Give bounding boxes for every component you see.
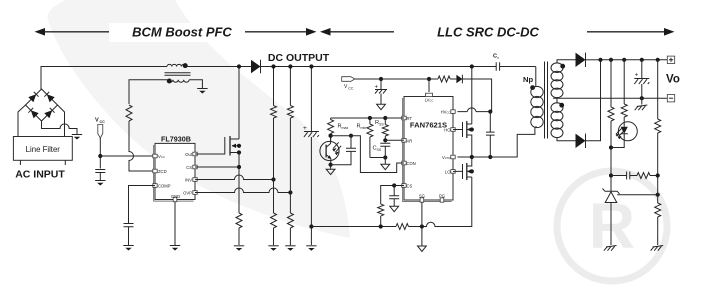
wire VCC node to FL7930B VCC pin: [100, 155, 155, 157]
wire Q1 source / CS sense line: [237, 153, 241, 214]
resistor OVP divider upper: [287, 64, 293, 213]
wire half-bridge bus: [470, 64, 474, 124]
wire bridge AC right: [58, 105, 65, 137]
node Vo label: [666, 74, 680, 86]
wire CS pin to sense line: [195, 166, 239, 168]
capacitor bootstrap: [486, 112, 495, 157]
wire COMP pin to compensation cap: [129, 186, 156, 224]
svg-text:AR: AR: [407, 138, 413, 143]
resistor OVP divider lower: [287, 213, 293, 245]
resistor INV divider upper: [271, 64, 277, 213]
wire lower diode to output rail: [586, 60, 601, 141]
wire ZCD winding to ground: [189, 80, 202, 88]
resistor Rmax: [328, 118, 349, 141]
transistor Q3 low-side MOSFET: [453, 157, 474, 180]
wire upper diode to output rail: [586, 59, 601, 61]
capacitor VCC bypass (LLC) electrolytic: [375, 79, 388, 104]
wire GND pin down: [174, 202, 176, 245]
wire primary ground return rail: [311, 177, 471, 229]
svg-text:HO: HO: [444, 128, 451, 133]
capacitor VCC bypass (left): [95, 170, 105, 181]
line filter block: [13, 137, 72, 161]
wire main DC rail: [41, 67, 536, 90]
diode secondary rectifier lower: [576, 134, 586, 148]
op-amp U2 FAN7621S LLC controller: [402, 93, 455, 202]
svg-text:PG: PG: [439, 194, 445, 199]
capacitor Cr resonant: [493, 54, 500, 71]
svg-text:LLC SRC DC-DC: LLC SRC DC-DC: [437, 25, 539, 40]
ground ZCD winding: [197, 89, 207, 94]
svg-text:DC OUTPUT: DC OUTPUT: [268, 52, 330, 64]
wire output positive rail: [598, 58, 667, 62]
inductor secondary upper winding: [551, 63, 565, 98]
svg-text:min: min: [361, 126, 367, 130]
wire ZCD resistor to ZCD pin (hops VCC wire): [129, 121, 155, 171]
ground output negative reference: [635, 98, 648, 110]
node AC INPUT label: [15, 169, 65, 181]
ground VCC bypass cap: [95, 181, 105, 186]
capacitor COMP compensation: [124, 224, 134, 246]
resistor feedback divider upper: [655, 60, 661, 203]
ground FL7930B GND: [170, 246, 180, 251]
wire VCC flag to VCC node: [98, 138, 102, 169]
svg-text:GND: GND: [171, 194, 180, 199]
wire Out pin to gate: [195, 153, 225, 155]
ground OVP divider: [285, 246, 295, 251]
ground bridge negative: [72, 135, 82, 140]
transformer core LLC: [545, 62, 548, 139]
resistor CS sense divider lower: [396, 224, 409, 230]
inductor ZCD auxiliary winding: [167, 79, 189, 84]
bridge rectifier BD1: [26, 89, 58, 121]
svg-text:LO: LO: [445, 169, 451, 174]
svg-text:CON: CON: [407, 161, 416, 166]
resistor feedback divider lower: [655, 203, 661, 245]
wire Rmin Css junction to ground: [370, 158, 385, 165]
svg-text:C: C: [493, 54, 497, 60]
wire INV feedback line: [195, 175, 276, 182]
node DC OUTPUT label: [268, 52, 330, 64]
wire opto emitter to ground: [330, 165, 332, 169]
wire VCC rail: [355, 77, 438, 81]
transistor Q2 high-side MOSFET: [453, 121, 474, 157]
wire Np bottom to staircase: [535, 126, 537, 128]
capacitor CS filter: [389, 186, 399, 207]
wire LLC SRC DC-DC span arrow: [320, 28, 675, 36]
resistor bootstrap: [438, 76, 456, 82]
wire RT row: [331, 116, 404, 120]
svg-text:SS: SS: [377, 148, 382, 152]
node LLC SRC DC-DC label: [419, 23, 587, 42]
svg-text:SG: SG: [419, 194, 425, 199]
wire AC input stubs: [20, 160, 65, 165]
node Vo positive terminal: [667, 56, 674, 63]
resistor Rmin: [357, 118, 373, 158]
diode opto-coupler LED: [616, 122, 638, 141]
ground VCC bypass (LLC): [377, 104, 386, 109]
svg-text:ZCD: ZCD: [158, 169, 167, 174]
transistor Q1 boost MOSFET: [225, 136, 241, 156]
capacitor feedback compensation: [611, 172, 637, 180]
ground TL431 anode: [604, 246, 617, 251]
svg-text:Np: Np: [523, 75, 533, 84]
capacitor across opto: [331, 134, 356, 165]
svg-text:BCM Boost PFC: BCM Boost PFC: [132, 25, 232, 40]
ground feedback divider: [651, 246, 664, 251]
svg-text:Out: Out: [185, 152, 193, 157]
wire OVP feedback line: [195, 188, 293, 195]
wire rail corner to Np: [535, 67, 537, 88]
svg-text:LVCC: LVCC: [425, 98, 434, 103]
node VCC flag (LLC supply): [342, 77, 355, 91]
wire ZCD winding left to resistor: [129, 80, 168, 104]
svg-text:HVCC: HVCC: [441, 110, 451, 115]
wire SG pin to rail: [421, 202, 423, 246]
wire AR pin: [385, 139, 404, 141]
wire Q1 drain to rail: [237, 64, 241, 139]
svg-text:FAN7621S: FAN7621S: [410, 121, 447, 130]
wire VCC to LVcc pin: [428, 79, 430, 92]
svg-text:COMP: COMP: [158, 184, 171, 189]
svg-text:Line Filter: Line Filter: [26, 145, 61, 154]
inductor Np primary winding: [531, 86, 543, 127]
svg-text:OVP: OVP: [183, 191, 192, 196]
inductor secondary lower winding: [551, 103, 564, 138]
wire secondary bottom to rectifier: [557, 137, 576, 141]
svg-text:SS: SS: [379, 123, 384, 127]
node BCM Boost PFC label: [109, 23, 239, 42]
wire BCM Boost PFC span arrow: [35, 28, 317, 36]
wire bootstrap diode to HVcc (hops half-bridge): [457, 79, 492, 114]
diode secondary rectifier upper: [576, 53, 586, 67]
svg-text:max: max: [342, 126, 349, 130]
svg-text:CS: CS: [186, 165, 192, 170]
svg-text:V: V: [95, 118, 99, 124]
transformer core boost inductor: [165, 73, 191, 75]
svg-text:CC: CC: [100, 120, 106, 124]
resistor feedback compensation: [637, 173, 658, 179]
capacitor output electrolytic: [634, 60, 649, 98]
ground bulk cap: [306, 246, 316, 251]
node Np label: [523, 75, 535, 90]
wire bridge negative to ground: [42, 121, 78, 134]
svg-text:FL7930B: FL7930B: [161, 135, 191, 144]
wire CS pin row: [381, 183, 404, 204]
capacitor bulk DC output electrolytic: [303, 64, 319, 245]
wire LED cathode to TL431 line: [611, 141, 624, 148]
ground Rmin/Css: [381, 164, 390, 169]
svg-text:INV: INV: [185, 178, 192, 183]
op-amp U1 FL7930B PFC controller: [153, 135, 197, 202]
svg-text:R: R: [589, 190, 635, 262]
diode bootstrap: [456, 75, 462, 84]
svg-text:VCTR: VCTR: [442, 155, 451, 160]
ground INV divider: [268, 246, 278, 251]
wire TL431 reference: [617, 193, 660, 197]
ground CS filter cap: [390, 206, 399, 211]
wire switching node row: [457, 127, 535, 159]
resistor INV divider lower: [271, 213, 277, 245]
shunt regulator TL431: [603, 189, 620, 246]
resistor Rss soft-start: [375, 118, 388, 142]
transistor opto-coupler phototransistor: [320, 134, 341, 167]
svg-text:VCC: VCC: [158, 154, 165, 159]
ground COMP cap: [123, 246, 133, 251]
node VCC flag (startup supply): [95, 118, 105, 139]
wire opto collector to CON pin: [331, 136, 404, 173]
ground SG: [418, 246, 427, 251]
ground sense resistor: [234, 246, 244, 251]
resistor ZCD series: [126, 105, 132, 121]
wire center tap to negative rail: [553, 96, 667, 103]
capacitor Css soft-start: [373, 143, 391, 159]
inductor boost primary winding: [167, 63, 188, 68]
svg-text:CS: CS: [407, 184, 413, 189]
resistor current sense: [236, 213, 242, 245]
diode boost D1: [251, 60, 261, 74]
resistor bias (TL431 cathode pull-up): [608, 60, 614, 191]
resistor CS divider: [378, 204, 384, 227]
resistor opto LED series: [621, 60, 627, 122]
svg-text:Vo: Vo: [666, 74, 680, 86]
ground opto emitter: [326, 169, 335, 174]
svg-text:RT: RT: [407, 116, 413, 121]
svg-text:CC: CC: [348, 86, 354, 90]
svg-text:+: +: [635, 73, 639, 79]
wire secondary top to rectifier: [557, 60, 576, 64]
wire bridge AC left: [18, 105, 26, 137]
svg-text:AC INPUT: AC INPUT: [15, 169, 65, 181]
svg-text:+: +: [303, 125, 307, 132]
node Vo negative terminal: [667, 95, 674, 102]
